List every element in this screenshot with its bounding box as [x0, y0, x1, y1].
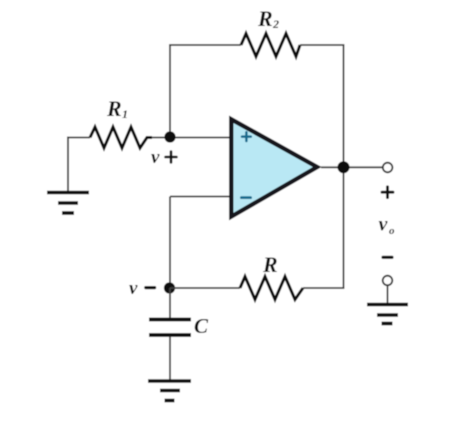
wire: R1 right lead to op-amp + input [152, 137, 231, 139]
wire: v- node to R left lead [170, 287, 240, 289]
terminal: output open circle [383, 163, 393, 173]
wire: top-left vertical from top wire to v+ node [169, 45, 171, 137]
wire: R1 left lead [67, 137, 90, 139]
svg-text:R: R [106, 96, 122, 121]
wire: minus input vertical down to v- node [169, 197, 171, 289]
svg-text:R: R [257, 6, 273, 31]
wire: op-amp output to terminal [321, 166, 382, 168]
ground (left, under R1 source) [47, 193, 89, 214]
node v- (junction dot) [164, 282, 175, 293]
ground (right, under output terminal) [367, 305, 408, 324]
resistor R2 [241, 34, 300, 57]
node: output junction dot [338, 161, 350, 173]
svg-text:v: v [151, 147, 160, 168]
wire: minus input horizontal [170, 196, 231, 198]
wire: left stub down to ground [67, 137, 69, 192]
wire: right vertical bus [343, 45, 345, 288]
svg-text:o: o [389, 225, 395, 237]
wire: top horizontal right lead from R2 [300, 44, 344, 46]
wire: capacitor to ground [169, 337, 171, 381]
ground (under capacitor) [148, 381, 191, 401]
svg-text:2: 2 [272, 17, 279, 31]
svg-text:C: C [194, 314, 209, 338]
resistor R [240, 277, 303, 300]
op-amp U1 [231, 119, 317, 216]
wire: top horizontal left lead to R2 [169, 44, 241, 46]
svg-text:v: v [129, 278, 138, 299]
wire: R right lead to right bus [303, 287, 344, 289]
svg-text:v: v [379, 214, 389, 236]
svg-text:R: R [262, 252, 278, 277]
terminal: lower output open circle [383, 276, 393, 286]
op-amp + input marker [242, 132, 251, 141]
svg-text:1: 1 [122, 107, 128, 121]
wire: lower terminal to ground [387, 286, 389, 304]
label + (output polarity) [382, 187, 393, 198]
resistor R1 [90, 127, 152, 148]
node v+ (junction dot) [164, 131, 175, 142]
capacitor C [149, 320, 191, 336]
op-amp - input marker [241, 196, 250, 199]
label - (output polarity) [383, 256, 392, 259]
wire: v- node down to capacitor [169, 288, 171, 318]
